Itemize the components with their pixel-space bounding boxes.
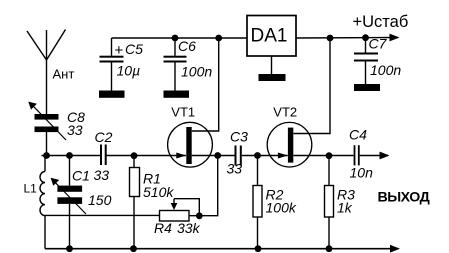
- svg-text:VT1: VT1: [171, 104, 195, 119]
- svg-text:R4: R4: [154, 220, 172, 236]
- svg-text:C3: C3: [230, 129, 248, 145]
- svg-text:150: 150: [88, 192, 112, 208]
- svg-text:510k: 510k: [143, 184, 174, 200]
- svg-text:100n: 100n: [181, 64, 212, 80]
- svg-text:100n: 100n: [370, 62, 401, 78]
- svg-text:C1: C1: [72, 168, 90, 184]
- svg-text:DA1: DA1: [251, 25, 288, 46]
- svg-text:100k: 100k: [266, 200, 297, 216]
- svg-text:C6: C6: [178, 38, 196, 54]
- svg-text:Ант: Ант: [53, 67, 75, 82]
- svg-text:10µ: 10µ: [117, 63, 141, 79]
- svg-text:C5: C5: [125, 41, 143, 57]
- svg-text:C7: C7: [369, 36, 388, 52]
- svg-text:10n: 10n: [350, 165, 374, 181]
- svg-text:33k: 33k: [177, 220, 201, 236]
- svg-text:L1: L1: [24, 181, 38, 195]
- svg-text:+: +: [115, 42, 124, 59]
- svg-text:33: 33: [94, 167, 110, 183]
- svg-text:1k: 1k: [337, 200, 353, 216]
- svg-text:+Uстаб: +Uстаб: [353, 13, 409, 31]
- svg-text:33: 33: [67, 122, 83, 138]
- svg-text:C2: C2: [95, 129, 113, 145]
- svg-text:ВЫХОД: ВЫХОД: [378, 190, 430, 206]
- svg-text:VT2: VT2: [273, 104, 297, 119]
- svg-text:33: 33: [227, 161, 243, 177]
- svg-text:C4: C4: [349, 127, 367, 143]
